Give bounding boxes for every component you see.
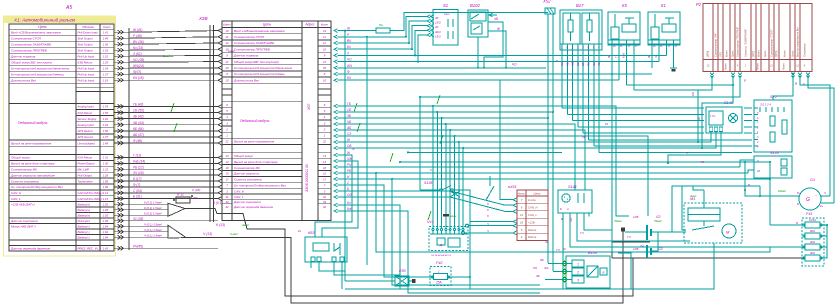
svg-text:В17: В17: [576, 3, 584, 8]
svg-text:17: 17: [225, 178, 229, 182]
svg-text:Кл-контроль/отб.мощности/Увели: Кл-контроль/отб.мощности/Увеличение: [234, 66, 293, 70]
svg-text:ЧБ (44): ЧБ (44): [133, 121, 144, 125]
svg-text:1.31: 1.31: [103, 156, 109, 160]
svg-text:Pull-Up Input: Pull-Up Input: [78, 66, 95, 70]
svg-text:Б: Б: [556, 59, 558, 63]
svg-text:Ж: Ж: [346, 27, 351, 31]
wire to F42 fuse: [338, 185, 432, 277]
svg-text:ключ: ключ: [444, 13, 450, 16]
svg-text:Х61: Х61: [509, 185, 517, 189]
svg-text:4мм²: 4мм²: [690, 194, 697, 198]
svg-text:Сигнализатор "МК": Сигнализатор "МК": [714, 32, 718, 57]
svg-text:Г: Г: [487, 196, 489, 200]
svg-text:4мм²: 4мм²: [242, 223, 250, 227]
bottom teal bus2: [408, 292, 540, 294]
svg-text:В-: В-: [797, 203, 800, 206]
svg-text:б: б: [487, 202, 489, 206]
svg-text:В: В: [748, 183, 750, 187]
svg-text:9: 9: [324, 54, 326, 58]
wire clutch down: [338, 205, 401, 289]
svg-text:1.08: 1.08: [103, 179, 109, 183]
svg-text:19: 19: [323, 29, 327, 33]
svg-text:А5: А5: [65, 5, 72, 11]
svg-text:Адрес: Адрес: [305, 23, 315, 27]
svg-text:Конт: Конт: [725, 50, 729, 57]
svg-text:30: 30: [435, 16, 439, 20]
CAN_H wire to X61: [338, 191, 514, 205]
table X3B frame: [222, 21, 331, 220]
svg-text:СБ: СБ: [347, 108, 351, 112]
X61 K-line wire: [500, 80, 513, 200]
svg-text:Датчик скорости: Датчик скорости: [233, 172, 260, 176]
svg-text:7: 7: [226, 183, 228, 187]
svg-text:ГЧ: ГЧ: [556, 248, 561, 252]
svg-text:~: ~: [815, 193, 818, 198]
svg-text:1.22: 1.22: [103, 167, 109, 171]
table X3B rows: [222, 33, 232, 35]
svg-text:РБ (22): РБ (22): [133, 165, 144, 169]
svg-text:5А: 5А: [379, 23, 383, 27]
svg-text:1.52: 1.52: [103, 54, 109, 58]
svg-text:3: 3: [226, 121, 228, 125]
svg-text:70мм²: 70мм²: [614, 219, 623, 223]
svg-text:2: 2: [323, 127, 326, 131]
svg-text:PRES_REC_IN_P: PRES_REC_IN_P: [78, 246, 102, 250]
wire run brake sensor: [338, 54, 416, 56]
svg-text:8: 8: [324, 72, 326, 76]
svg-text:ВЧ (36): ВЧ (36): [133, 40, 144, 44]
svg-text:S1: S1: [443, 3, 448, 8]
svg-text:К (0,1) 1.5мм²: К (0,1) 1.5мм²: [144, 206, 163, 210]
svg-text:18: 18: [225, 47, 229, 51]
S143 wires: [740, 160, 754, 167]
svg-text:1.15: 1.15: [103, 197, 109, 201]
svg-text:Сигнализатор ЗАЖИГАНИЕ: Сигнализатор ЗАЖИГАНИЕ: [234, 41, 275, 45]
svg-text:1.36: 1.36: [103, 42, 109, 46]
svg-text:4: 4: [324, 115, 326, 119]
wire group X1 to X3B top: [114, 31, 130, 33]
wire run glow lamp: [338, 48, 413, 50]
svg-text:10: 10: [323, 78, 327, 82]
svg-text:1 5 1: 1 5 1: [710, 115, 716, 118]
svg-text:CAN DATA LINK(-): CAN DATA LINK(-): [78, 197, 102, 201]
svg-text:Ж: Ж: [544, 240, 548, 244]
svg-text:Ч (0,1) 1.5мм²: Ч (0,1) 1.5мм²: [144, 222, 163, 226]
svg-text:Сигнализатор ЗАЖИГАНИЕ: Сигнализатор ЗАЖИГАНИЕ: [11, 42, 52, 46]
svg-text:ЖБ: ЖБ: [571, 61, 575, 67]
svg-text:Р: Р: [744, 79, 747, 83]
svg-text:В+: В+: [797, 192, 801, 195]
svg-text:1: 1: [757, 131, 759, 134]
svg-text:экран: экран: [450, 215, 457, 218]
svg-text:4: 4: [598, 46, 600, 50]
svg-text:CAN DATA LINK(+): CAN DATA LINK(+): [78, 191, 103, 195]
charge lamp wires to P2: [800, 76, 830, 197]
svg-text:М: М: [726, 230, 730, 235]
svg-text:S141: S141: [568, 185, 577, 189]
svg-text:Конт: Конт: [103, 25, 111, 29]
svg-text:КЧ: КЧ: [347, 76, 352, 80]
connector X3B bars: [209, 25, 211, 222]
svg-text:Цепь: Цепь: [38, 25, 47, 29]
svg-text:1.49: 1.49: [103, 36, 109, 40]
svg-text:Цепь: Цепь: [263, 23, 272, 27]
svg-text:Tachometer: Tachometer: [78, 179, 94, 183]
svg-text:1.28: 1.28: [103, 173, 109, 177]
svg-text:4 мм²: 4 мм²: [230, 232, 239, 236]
svg-text:4: 4: [737, 64, 739, 68]
svg-text:Ч: Ч: [487, 229, 489, 233]
svg-text:Р: Р: [686, 151, 688, 155]
svg-text:Pull-Output: Pull-Output: [78, 173, 93, 177]
svg-text:АБ: АБ: [597, 62, 601, 67]
F41 left feed: [770, 224, 803, 226]
svg-text:1.04: 1.04: [103, 224, 109, 228]
svg-text:ЧО: ЧО: [347, 58, 352, 62]
svg-text:РБ: РБ: [691, 92, 695, 96]
svg-text:Педальный модуль: Педальный модуль: [18, 121, 48, 125]
svg-text:10: 10: [605, 122, 609, 126]
svg-text:5: 5: [324, 109, 326, 113]
svg-text:Ч (13): Ч (13): [203, 232, 212, 236]
svg-text:Обознач: Обознач: [82, 25, 94, 29]
svg-text:Сигнализатор "СТОП": Сигнализатор "СТОП": [770, 28, 774, 57]
svg-text:ЧО: ЧО: [569, 217, 573, 222]
svg-text:G: G: [806, 197, 810, 203]
svg-text:В104: В104: [588, 251, 597, 255]
K5 pins: [608, 39, 640, 41]
wire group X1 to X3B pedal: [114, 105, 218, 107]
svg-text:1: 1: [745, 64, 747, 68]
svg-text:З (52): З (52): [133, 52, 142, 56]
svg-text:R 32: R 32: [177, 193, 184, 197]
svg-text:Сигнализатор МК: Сигнализатор МК: [234, 166, 260, 170]
left bus links: [408, 151, 562, 153]
K1 pins: [648, 39, 680, 41]
svg-text:15/1: 15/1: [435, 34, 441, 38]
K5 pin wires: [611, 48, 613, 230]
svg-text:ЧБ: ЧБ: [494, 17, 498, 21]
svg-text:Цепь: Цепь: [534, 192, 541, 196]
svg-text:Педальный модуль: Педальный модуль: [240, 119, 270, 123]
svg-text:31: 31: [225, 195, 229, 199]
svg-text:Ч (0,1) 1.5мм²: Ч (0,1) 1.5мм²: [144, 228, 163, 232]
svg-text:Ж: Ж: [346, 138, 351, 142]
svg-text:1.03: 1.03: [103, 213, 109, 217]
svg-text:Х07: Х07: [307, 103, 311, 111]
svg-text:Б (31): Б (31): [133, 195, 142, 199]
fuse on ignition wire: [338, 30, 377, 32]
svg-text:3: 3: [324, 121, 326, 125]
svg-text:1.56: 1.56: [103, 129, 109, 133]
svg-text:12В: 12В: [633, 247, 638, 251]
svg-text:14: 14: [323, 160, 327, 164]
svg-text:16: 16: [225, 166, 229, 170]
svg-text:Pull-Up Input: Pull-Up Input: [78, 72, 95, 76]
svg-text:1.48: 1.48: [103, 141, 109, 145]
svg-text:ГЧ: ГЧ: [627, 235, 632, 239]
svg-text:86: 86: [613, 46, 616, 48]
svg-text:Б: Б: [603, 271, 605, 275]
svg-text:S143: S143: [770, 151, 780, 155]
svg-text:7: 7: [324, 183, 326, 187]
svg-text:ЗЧ (15): ЗЧ (15): [133, 171, 144, 175]
svg-text:Сигнализатор СТОП: Сигнализатор СТОП: [11, 36, 42, 40]
svg-text:15: 15: [323, 172, 327, 176]
svg-text:2: 2: [576, 270, 579, 274]
S141 wires down: [562, 217, 564, 290]
svg-text:6: 6: [521, 206, 523, 210]
svg-text:G1: G1: [810, 178, 815, 182]
SY2 feed wires: [773, 73, 793, 101]
svg-text:Б: Б: [796, 221, 798, 225]
svg-text:1.42: 1.42: [103, 117, 109, 121]
svg-text:7: 7: [757, 122, 759, 125]
harness bar left: [128, 28, 130, 250]
svg-text:РЧ: РЧ: [347, 163, 352, 167]
P2 tach wire: [420, 76, 740, 97]
svg-text:21: 21: [322, 60, 327, 64]
svg-text:А: А: [566, 208, 569, 211]
svg-text:1.24: 1.24: [103, 66, 109, 70]
svg-text:7: 7: [521, 198, 523, 202]
svg-text:ГБ (43): ГБ (43): [133, 102, 143, 106]
svg-text:1.44: 1.44: [103, 123, 109, 127]
svg-text:Ж: Ж: [351, 147, 355, 151]
svg-text:15: 15: [225, 172, 229, 176]
svg-text:Х1: Автомобильный разъем: Х1: Автомобильный разъем: [13, 17, 76, 23]
wire run ignition lamp: [338, 42, 410, 44]
svg-text:Ж: Ж: [346, 151, 351, 155]
svg-text:С (28): С (28): [192, 188, 200, 192]
svg-text:ПБ: ПБ: [587, 62, 591, 66]
wire run ECU common: [338, 61, 419, 63]
battery stud: [621, 228, 625, 232]
svg-text:125А: 125А: [809, 218, 816, 222]
svg-text:1.45: 1.45: [103, 246, 109, 250]
svg-text:ICM Return: ICM Return: [78, 111, 93, 115]
svg-text:Sink Output: Sink Output: [78, 36, 93, 40]
svg-text:Конт: Конт: [782, 62, 786, 69]
svg-text:18: 18: [323, 47, 327, 51]
svg-text:3 0 1 2 4: 3 0 1 2 4: [760, 103, 771, 107]
svg-text:ЗЗОб-0000001 30: ЗЗОб-0000001 30: [305, 164, 309, 192]
svg-text:Кч: Кч: [347, 201, 351, 205]
svg-text:Battery(-): Battery(-): [78, 230, 90, 234]
svg-text:32: 32: [323, 205, 327, 209]
wire down mid: [392, 179, 540, 285]
svg-text:Г (13): Г (13): [133, 153, 141, 157]
svg-text:32: 32: [225, 205, 229, 209]
svg-text:16: 16: [520, 220, 524, 224]
svg-text:Ф (48): Ф (48): [133, 139, 142, 143]
svg-text:12В: 12В: [633, 215, 638, 219]
svg-text:14: 14: [225, 160, 229, 164]
svg-text:Б: Б: [508, 185, 510, 189]
svg-text:Pull-Up Input: Pull-Up Input: [78, 78, 95, 82]
svg-text:30: 30: [668, 46, 671, 48]
svg-text:Ч: Ч: [487, 222, 489, 226]
svg-text:ХЗВ: ХЗВ: [198, 16, 208, 21]
svg-text:22: 22: [224, 140, 229, 144]
svg-text:С: С: [347, 181, 350, 185]
svg-text:90А: 90А: [810, 229, 815, 233]
svg-text:ОБ: ОБ: [347, 144, 352, 148]
svg-text:СБ (55): СБ (55): [133, 109, 144, 113]
svg-text:1.29: 1.29: [103, 60, 109, 64]
svg-text:21: 21: [224, 60, 229, 64]
switch contact mid: [486, 186, 494, 200]
wire run stop lamp: [338, 36, 407, 38]
svg-text:19: 19: [225, 29, 229, 33]
svg-text:Sensor Supply: Sensor Supply: [78, 117, 97, 121]
F41 right links: [821, 225, 827, 258]
svg-text:Sink Output: Sink Output: [78, 48, 93, 52]
svg-text:Выход на реле нагревателя: Выход на реле нагревателя: [11, 141, 51, 145]
svg-text:30: 30: [435, 25, 439, 29]
svg-text:РЧ(45): РЧ(45): [133, 244, 143, 248]
svg-text:13: 13: [225, 154, 229, 158]
svg-text:Battery(+): Battery(+): [78, 213, 91, 217]
svg-text:КчБ (14): КчБ (14): [133, 159, 145, 163]
svg-text:Ф: Ф: [347, 70, 350, 74]
svg-text:Датчик сцепления: Датчик сцепления: [10, 219, 38, 223]
svg-text:25А: 25А: [435, 281, 442, 285]
svg-text:Съем на тахометр: Съем на тахометр: [11, 179, 39, 183]
B104 input wires: [548, 263, 572, 265]
X61 +12V wire from F42: [448, 222, 513, 278]
svg-text:Кч: Кч: [347, 45, 351, 49]
svg-text:Sink Output: Sink Output: [78, 42, 93, 46]
svg-text:V11: V11: [427, 219, 434, 224]
X3B right-side wire stubs bottom: [334, 153, 338, 157]
svg-text:Battery(-): Battery(-): [78, 224, 90, 228]
battery to starter wire: [672, 231, 686, 233]
svg-text:1: 1: [226, 133, 228, 137]
starter block wire to K83: [322, 161, 358, 237]
svg-text:ХР1: ХР1: [719, 51, 723, 58]
svg-text:G3: G3: [658, 247, 663, 251]
svg-text:1.02: 1.02: [103, 202, 109, 206]
svg-text:1.04: 1.04: [103, 235, 109, 239]
svg-text:Кл- контроль/Отбор мощности-Вк: Кл- контроль/Отбор мощности-Вкл: [11, 185, 63, 189]
svg-text:31: 31: [323, 195, 327, 199]
svg-text:1.39: 1.39: [103, 219, 109, 223]
svg-text:5: 5: [521, 228, 523, 232]
svg-text:8: 8: [588, 46, 590, 50]
svg-text:Вход от стартера не Вкл: Вход от стартера не Вкл: [797, 27, 800, 57]
svg-text:Датчик тормоза: Датчик тормоза: [233, 54, 259, 58]
svg-text:К1: К1: [661, 3, 666, 8]
svg-text:К5: К5: [622, 3, 627, 8]
svg-text:85: 85: [660, 46, 663, 48]
B17 pin drop wires to SY2: [561, 50, 563, 108]
G1 wires: [760, 186, 799, 196]
X61 ground terminals: [466, 224, 469, 227]
svg-text:К (17): К (17): [133, 177, 141, 181]
heater relay wire: [114, 142, 218, 144]
svg-text:CAN_H: CAN_H: [528, 206, 538, 210]
svg-text:Общий минус: Общий минус: [11, 156, 31, 160]
svg-text:З: З: [347, 51, 349, 55]
svg-text:70мм²: 70мм²: [654, 219, 663, 223]
svg-text:Конт: Конт: [518, 192, 526, 196]
svg-text:6: 6: [757, 117, 759, 120]
svg-text:4: 4: [521, 235, 523, 239]
svg-text:б: б: [487, 214, 489, 218]
svg-text:Кл-контроль/отб.мощности/Увели: Кл-контроль/отб.мощности/Увеличение: [11, 66, 70, 70]
svg-text:СБ: СБ: [560, 62, 564, 66]
wire pto: [376, 173, 805, 252]
svg-text:D+: D+: [820, 205, 824, 208]
svg-text:Кл-контроль/отб.мощности/Умень: Кл-контроль/отб.мощности/Уменьш: [11, 72, 65, 76]
ground under K1: [673, 48, 675, 68]
svg-text:РБ: РБ: [347, 169, 351, 173]
svg-text:СБ ЗБ БЧ АБ КБ СЗ: СБ ЗБ БЧ АБ КБ СЗ: [431, 254, 452, 257]
svg-text:87: 87: [635, 46, 638, 48]
svg-text:Ж: Ж: [562, 247, 566, 251]
svg-text:3: 3: [226, 189, 228, 193]
wire speed sensor: [338, 172, 749, 174]
svg-text:К (0,1) 1.5мм²: К (0,1) 1.5мм²: [144, 200, 163, 204]
svg-text:13: 13: [323, 154, 327, 158]
svg-text:В102: В102: [470, 3, 480, 8]
svg-text:Ж4: Ж4: [543, 266, 549, 270]
svg-text:МК_LMP: МК_LMP: [78, 167, 90, 171]
svg-text:ЗБ (42): ЗБ (42): [133, 115, 144, 119]
svg-text:б: б: [487, 208, 489, 212]
wire pressure down: [338, 211, 541, 293]
svg-text:CAN_H: CAN_H: [234, 189, 245, 193]
svg-text:16: 16: [323, 166, 327, 170]
svg-text:Ф (7): Ф (7): [133, 183, 140, 187]
svg-text:Кл- контроль/Отбор мощности-Вк: Кл- контроль/Отбор мощности-Вкл: [234, 183, 286, 187]
svg-text:5: 5: [593, 46, 595, 50]
svg-text:К-Line: К-Line: [528, 198, 536, 202]
svg-text:Вход +12В выключатель зажигани: Вход +12В выключатель зажигания: [234, 29, 285, 33]
svg-text:1.18: 1.18: [103, 78, 109, 82]
K5 to P2 link2: [634, 89, 712, 91]
wire tach long: [338, 178, 771, 180]
svg-text:1.30: 1.30: [103, 162, 109, 166]
bottom teal bus: [345, 243, 714, 289]
svg-text:30: 30: [628, 46, 631, 48]
svg-text:1мм²: 1мм²: [163, 54, 171, 58]
svg-text:Датчик сцепления: Датчик сцепления: [233, 200, 261, 204]
svg-text:1: 1: [438, 270, 440, 274]
svg-text:2: 2: [571, 46, 574, 50]
svg-text:Кл-контроль/отб.мощности/Умень: Кл-контроль/отб.мощности/Умень: [234, 72, 285, 76]
svg-text:1.37: 1.37: [103, 72, 109, 76]
svg-text:Масса: Масса: [528, 228, 537, 232]
svg-text:7: 7: [577, 46, 579, 50]
svg-text:ХР2: ХР2: [752, 51, 756, 58]
svg-text:PowerOutput: PowerOutput: [78, 162, 95, 166]
svg-text:Б: Б: [347, 187, 349, 191]
svg-text:22: 22: [322, 140, 327, 144]
junction riser: [477, 37, 479, 68]
svg-text:Конт: Конт: [724, 62, 728, 69]
svg-text:Лб: Лб: [532, 266, 537, 270]
svg-text:1.14: 1.14: [103, 191, 109, 195]
svg-text:С (04): С (04): [133, 189, 142, 193]
svg-text:Р2: Р2: [696, 2, 702, 7]
battery plus wires merge: [114, 203, 168, 205]
svg-text:АБ (37): АБ (37): [132, 133, 144, 137]
svg-text:ЖЧ: ЖЧ: [346, 64, 353, 68]
svg-text:ОБ: ОБ: [592, 62, 596, 66]
resistor R32: [176, 197, 190, 203]
